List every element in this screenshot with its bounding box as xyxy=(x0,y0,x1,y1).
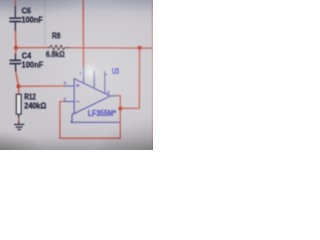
wire: inverting input feedback path xyxy=(60,96,120,139)
op-amp plus sign xyxy=(76,84,79,87)
wire: blue net below op-amp xyxy=(72,113,120,122)
op-amp pin 3 stub xyxy=(64,85,74,87)
capacitor C6 plates xyxy=(9,18,21,21)
op-amp top pin stub 2 xyxy=(93,71,95,89)
vignette / glare overlay xyxy=(0,0,153,150)
capacitor C6 pin top xyxy=(14,6,16,17)
junction node left (C6/C4/R8) xyxy=(14,46,18,50)
wire: right edge vertical xyxy=(152,0,154,150)
node: output feedback junction xyxy=(118,106,122,110)
ground symbol xyxy=(18,114,20,124)
svg-text:U3: U3 xyxy=(112,66,119,76)
wire: node B to R12 xyxy=(18,86,20,94)
node B junction (to +input / R12) xyxy=(17,84,21,88)
op-amp pin 2 stub xyxy=(64,101,74,103)
op-amp U1 pin 7 stub xyxy=(83,67,85,84)
capacitor C6 pin bottom xyxy=(14,22,16,31)
wire: R8 right lead to right edge xyxy=(70,47,153,49)
svg-text:LF355M*: LF355M* xyxy=(88,108,117,118)
wire: top vertical into op-amp V+ pin xyxy=(82,0,84,67)
wire: C4 to node B xyxy=(16,72,19,87)
capacitor C4 plates xyxy=(10,60,22,63)
node: feedback junction on top wire xyxy=(138,46,142,50)
op-amp U3 triangle xyxy=(74,79,110,114)
svg-text:240kΩ: 240kΩ xyxy=(24,100,46,110)
resistor R8 zigzag xyxy=(47,45,70,49)
svg-text:6: 6 xyxy=(107,90,110,95)
svg-text:100nF: 100nF xyxy=(21,15,42,25)
svg-text:6.8kΩ: 6.8kΩ xyxy=(46,49,65,59)
faint screen artifact line xyxy=(44,0,46,47)
capacitor C4 pin top xyxy=(14,54,16,60)
wire: C6 to junction xyxy=(14,31,17,48)
svg-text:7: 7 xyxy=(79,71,82,76)
wire: left vertical above C6 xyxy=(14,0,16,7)
wire: R8 left lead xyxy=(16,47,47,49)
op-amp minus sign xyxy=(76,101,79,103)
wire: feedback up to top net xyxy=(120,48,139,109)
wire: output to feedback vertical xyxy=(117,95,121,97)
wire: R12 to ground xyxy=(18,117,20,122)
svg-text:R8: R8 xyxy=(52,32,61,41)
svg-text:3: 3 xyxy=(63,81,66,86)
svg-text:100nF: 100nF xyxy=(22,59,44,69)
op-amp pin 6 output stub xyxy=(110,95,117,97)
wire: junction to C4 xyxy=(15,48,17,54)
op-amp top pin stub 3 xyxy=(105,71,108,93)
resistor R12 body xyxy=(16,94,21,114)
wire: +input red wire from node B xyxy=(19,85,65,87)
capacitor C4 pin bottom xyxy=(15,64,17,71)
